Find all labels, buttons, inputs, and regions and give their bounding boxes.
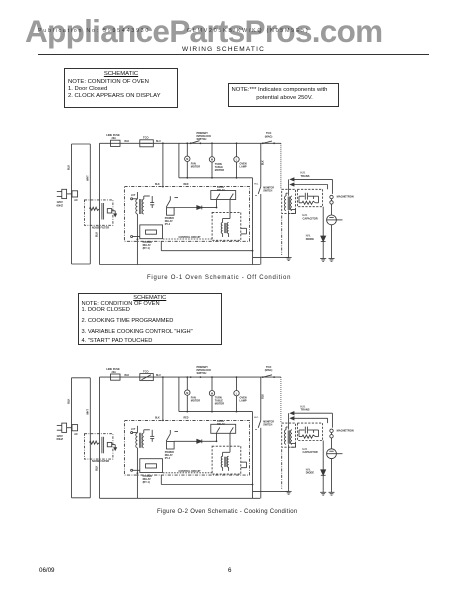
svg-text:BLK: BLK [125,141,130,143]
svg-text:SWITCH: SWITCH [263,424,272,426]
wire transformer ground leg [288,444,290,489]
wire relay bus [161,475,253,484]
svg-text:(MAG): (MAG) [265,135,273,138]
relay RY2 (oven relay) contacts [211,420,236,442]
wire left loop (BLK / WHT lines) [68,144,91,264]
svg-text:SWITCH: SWITCH [197,138,207,141]
magnetron MG1 [327,449,343,490]
svg-text:20A: 20A [112,371,117,374]
wire transformer ground leg [288,211,290,256]
svg-text:H.C.: H.C. [254,183,259,185]
oven lamp OL [234,142,247,178]
svg-text:RY-2: RY-2 [165,223,171,226]
wire control circuit link [163,236,212,239]
transformer T2 (low voltage) [131,192,154,214]
diode D2 [174,439,216,443]
svg-text:MOTOR: MOTOR [191,399,200,402]
relay RY2 (oven relay) contacts [211,186,236,208]
svg-text:LVT: LVT [131,428,136,431]
turntable motor TTM [209,376,224,412]
transformer T1 (H.V. trans) [282,189,296,213]
oven lamp OL [234,376,247,412]
svg-text:M: M [186,392,188,395]
svg-text:BLU: BLU [156,141,161,143]
svg-text:BLK: BLK [96,232,99,237]
relay RY1 coil [140,459,163,484]
wire bottom rail [100,497,261,499]
transformer T3 (control trans) box [212,441,241,474]
interlock switch SW1 [190,132,211,144]
node line connect [155,418,189,422]
diode D2 [174,206,216,210]
svg-text:(MAG): (MAG) [265,369,273,372]
control unit dashed enclosure [124,420,249,475]
svg-text:TRANS: TRANS [301,408,310,412]
svg-text:BLK: BLK [96,465,99,470]
wire drop to control box [162,142,164,186]
wire chassis boundary [281,216,283,256]
svg-text:SWITCH: SWITCH [197,372,207,375]
thermal cutout TCO2 (magnetron) [262,132,275,144]
diode D1 (H.V. diode) [306,441,326,491]
svg-text:LAMP: LAMP [240,399,247,402]
control unit dashed enclosure [124,187,249,242]
svg-text:RED: RED [184,418,189,420]
wire chassis boundary [281,449,283,489]
wire neutral drop [252,178,254,265]
capacitor C1 (H.V. capacitor) box [297,189,322,220]
ground G3 [320,257,326,262]
svg-text:MOTOR: MOTOR [215,169,224,172]
diode D1 (H.V. diode) [306,207,326,257]
wire neutral drop [252,412,254,499]
wire drop to control box [162,376,164,420]
svg-text:BLK: BLK [68,165,71,170]
transformer T1 (H.V. trans) [282,423,296,447]
thermal cutout TCO1 (cavity) [140,136,154,147]
svg-text:MONITOR: MONITOR [263,188,274,190]
svg-text:DIODE: DIODE [306,237,314,241]
monitor switch SW2 [254,143,274,198]
relay RY2 contact [165,430,178,460]
power cord plug P1 [57,423,72,441]
connector bracket CN2 [241,462,247,468]
wire line bus [96,377,100,498]
svg-text:BLU: BLU [156,375,161,377]
svg-text:CAPACITOR: CAPACITOR [303,216,318,220]
svg-text:AC: AC [74,199,78,202]
connector pin CN1-a [131,432,138,434]
svg-text:AC: AC [74,433,78,436]
svg-text:RY-2: RY-2 [165,457,171,460]
wire monitor return [252,428,261,499]
svg-text:CONTROL CIRCUIT: CONTROL CIRCUIT [179,236,202,239]
ground G1 [286,489,292,494]
transformer T2 (low voltage) [131,426,154,448]
turntable motor TTM [209,142,224,178]
svg-text:**: ** [255,194,257,198]
svg-text:TCO: TCO [143,136,148,140]
transformer T3 (control trans) box [212,208,241,241]
connector bracket CN2 [241,228,247,234]
wire secondary return [253,490,289,492]
fuse F2 (H.V. fuse) [330,195,354,215]
svg-text:MONITOR: MONITOR [263,421,274,423]
svg-text:H.C.: H.C. [254,417,259,419]
fan motor FM [185,376,201,412]
svg-text:DIODE: DIODE [306,471,314,475]
magnetron MG1 [327,215,343,257]
monitor switch SW2 [254,377,274,432]
noise filter FL1 [85,200,117,230]
wire relay bus [161,241,253,250]
svg-text:MOTOR: MOTOR [215,403,224,406]
power cord plug P1 [57,189,72,207]
wire LVT return [137,448,139,499]
wire to H.V. transformer [281,143,289,195]
svg-text:WHT: WHT [86,175,89,181]
thermal cutout TCO2 (magnetron) [262,366,275,378]
wire LVT return [137,214,139,265]
ground G1 [286,256,292,261]
wire line bus [96,143,100,264]
svg-text:SWITCH: SWITCH [263,191,272,193]
fuse F1 (line fuse) [106,367,120,380]
svg-text:60HZ: 60HZ [57,203,64,207]
noise filter FL1 [85,434,117,464]
svg-text:MAGNETRON: MAGNETRON [337,428,354,432]
svg-text:M: M [211,392,213,395]
svg-text:BLK: BLK [68,398,71,403]
svg-text:(RY-1): (RY-1) [143,247,150,250]
connector pin CN1-a [131,198,138,200]
wire monitor return [252,194,261,265]
svg-text:NOISE FILTER: NOISE FILTER [92,226,109,229]
wire motor-branch frame [179,143,253,178]
svg-text:TRANS: TRANS [301,174,310,178]
wire to H.V. transformer [281,377,289,429]
svg-text:**: ** [255,428,257,432]
svg-text:WHT: WHT [86,409,89,415]
node filament lead arrows [290,404,332,427]
ground G2 [329,490,335,495]
svg-text:BLK: BLK [125,375,130,377]
svg-text:L: L [236,159,238,162]
svg-text:MOTOR: MOTOR [191,166,200,169]
fuse F1 (line fuse) [106,133,120,146]
svg-text:LAMP: LAMP [240,166,247,169]
wire top rail [100,376,281,378]
ground G2 [329,257,335,262]
svg-text:60HZ: 60HZ [57,437,64,441]
wire control circuit link [163,470,212,473]
connector pin CN1-b [131,469,140,471]
svg-text:BLK: BLK [155,418,160,420]
svg-text:20A: 20A [112,137,117,140]
wire motor-branch frame [179,377,253,412]
svg-text:BLK: BLK [155,184,160,186]
ground G3 [320,490,326,495]
svg-text:BLK: BLK [263,160,265,165]
fan motor FM [185,142,201,178]
svg-text:CAPACITOR: CAPACITOR [303,450,318,454]
wire secondary return [253,257,289,259]
capacitor C1 (H.V. capacitor) box [297,423,322,454]
svg-text:(RY-1): (RY-1) [143,481,150,484]
node line connect [155,184,189,188]
svg-text:RED: RED [184,184,189,186]
node filament lead arrows [290,171,332,194]
svg-text:BLK: BLK [263,394,265,399]
svg-text:CONTROL CIRCUIT: CONTROL CIRCUIT [179,470,202,473]
svg-text:M: M [211,159,213,162]
svg-text:LVT: LVT [131,194,136,197]
wire bottom rail [100,264,261,266]
interlock switch SW1 [190,366,211,378]
wire left loop (BLK / WHT lines) [68,378,91,498]
thermal cutout TCO1 (cavity) [140,369,154,380]
connector CON-A [72,191,78,202]
svg-text:MAGNETRON: MAGNETRON [337,195,354,199]
svg-text:M: M [186,158,188,161]
relay RY2 contact [165,196,178,226]
svg-text:NOISE FILTER: NOISE FILTER [92,460,109,463]
svg-text:L: L [236,392,238,395]
connector CON-A [72,425,78,436]
relay RY1 coil [140,225,163,250]
connector pin CN1-b [131,236,140,238]
wire top rail [100,142,281,144]
fuse F2 (H.V. fuse) [330,428,354,448]
svg-text:TCO: TCO [143,369,148,373]
